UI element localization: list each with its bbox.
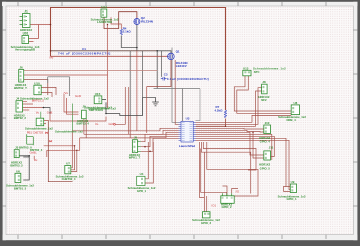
wire: GPIO2 to right loop xyxy=(232,189,238,194)
wire xyxy=(120,98,143,116)
svg-text:/Vo: /Vo xyxy=(49,56,54,60)
svg-text:U10: U10 xyxy=(34,81,40,85)
wire: J9 left pins xyxy=(64,94,79,112)
connector U15 xyxy=(84,92,112,112)
svg-text:BMT02_2: BMT02_2 xyxy=(14,116,27,120)
ruler band bottom xyxy=(3,235,358,241)
wire xyxy=(223,186,228,193)
connector J6 xyxy=(14,66,27,90)
wire: C1 top line xyxy=(51,50,158,52)
wire xyxy=(84,130,179,134)
svg-text:GnB: GnB xyxy=(47,110,53,114)
connector U14 LADESTDB xyxy=(91,5,119,24)
svg-text:Q1: Q1 xyxy=(176,50,180,54)
wire xyxy=(201,142,250,194)
svg-text:GnD: GnD xyxy=(75,94,82,98)
wire: J6 right wires xyxy=(22,70,157,72)
wire xyxy=(196,130,264,132)
svg-text:Schraubklemme_1x2: Schraubklemme_1x2 xyxy=(55,130,83,134)
wire xyxy=(141,136,179,146)
unconnected pin circle xyxy=(114,123,116,125)
svg-text:Schraubklemme_1x3: Schraubklemme_1x3 xyxy=(88,107,116,111)
svg-text:PB1 ChET03: PB1 ChET03 xyxy=(27,131,44,135)
wire: IC bottom down xyxy=(200,142,205,198)
svg-text:J8: J8 xyxy=(262,80,266,84)
wire xyxy=(47,138,80,157)
wire xyxy=(237,76,291,114)
wire: J4 net right xyxy=(23,107,43,109)
svg-text:BMT03_5: BMT03_5 xyxy=(32,98,45,102)
wire xyxy=(71,150,77,171)
svg-text:LADESTDB: LADESTDB xyxy=(97,20,112,24)
svg-text:U7: U7 xyxy=(66,161,70,165)
wire xyxy=(207,142,258,196)
svg-text:J9: J9 xyxy=(82,104,86,108)
wire: U10 stubs xyxy=(41,87,56,97)
wire: left rail /Vo down then to Q1 gate xyxy=(51,55,168,57)
svg-text:J10: J10 xyxy=(265,121,270,125)
wire: to U4 xyxy=(145,142,148,179)
wire: bus into IC left xyxy=(72,128,178,131)
svg-text:U3: U3 xyxy=(186,116,190,120)
svg-text:C3: C3 xyxy=(164,72,168,76)
wire xyxy=(196,136,275,156)
svg-text:J6: J6 xyxy=(19,66,23,70)
capacitor C1 xyxy=(58,47,111,56)
connector U8 xyxy=(278,101,306,122)
wire xyxy=(196,115,292,122)
wire xyxy=(128,87,130,134)
connector J9 xyxy=(77,104,117,125)
connector U9 xyxy=(278,180,306,201)
wire: Q2 source down to C1 line xyxy=(121,24,137,47)
svg-text:WPK1_T: WPK1_T xyxy=(129,156,141,160)
wire xyxy=(142,51,144,98)
svg-text:NTC: NTC xyxy=(254,70,260,74)
wire: U01 stubs to vertical xyxy=(29,25,39,42)
connector J5 xyxy=(129,135,141,159)
wire xyxy=(145,142,153,183)
svg-text:GPD_1: GPD_1 xyxy=(137,189,147,193)
connector U6 xyxy=(6,170,34,191)
wire xyxy=(102,99,106,101)
wire: gray net below C3 xyxy=(143,98,156,100)
wire: J9 bottom down xyxy=(84,119,86,138)
wire xyxy=(175,60,178,124)
wire xyxy=(203,142,256,170)
ruler band top xyxy=(2,2,358,6)
svg-text:2.1kΩ: 2.1kΩ xyxy=(123,30,132,34)
wire: long red verticals center xyxy=(107,25,109,109)
wire xyxy=(196,138,291,186)
svg-text:GPIO_3: GPIO_3 xyxy=(201,221,212,225)
wire: J1 to rail xyxy=(30,24,51,26)
wire: gray horiz y88.5 xyxy=(154,89,201,122)
wire: green net stub x72.3 xyxy=(71,104,73,131)
resistor R7 xyxy=(215,105,227,118)
wire: black gnd from U15 xyxy=(106,102,120,113)
connector J10 xyxy=(259,121,270,143)
svg-text:LaunchPad: LaunchPad xyxy=(179,144,195,148)
svg-text:0.1 uF [C0000C220#RACTU]: 0.1 uF [C0000C220#RACTU] xyxy=(167,77,209,81)
wire: R4 top xyxy=(111,17,121,29)
svg-text:LE34CV: LE34CV xyxy=(176,64,187,68)
connector J3 xyxy=(14,145,43,157)
connector U5 GPIO_3 xyxy=(192,212,220,225)
wire: J4 right wires xyxy=(23,102,34,104)
wire: red stub under U15 xyxy=(93,117,106,122)
wire: J4 stub xyxy=(23,109,30,111)
svg-text:IO1: IO1 xyxy=(212,204,217,208)
wire xyxy=(206,196,208,212)
resistor R4 xyxy=(120,26,131,35)
transistor Q2 xyxy=(134,16,153,25)
wire: C1 line to Q1 top xyxy=(157,51,171,53)
IC U3 LaunchPad xyxy=(179,116,196,148)
svg-text:J11: J11 xyxy=(269,145,274,149)
svg-text:U13: U13 xyxy=(243,66,249,70)
wire xyxy=(71,146,75,170)
svg-text:GnD: GnD xyxy=(109,122,115,126)
connector pin marks xyxy=(15,11,294,215)
wire xyxy=(284,187,291,192)
svg-text:740 uF [D300C2200MPAC7U]: 740 uF [D300C2200MPAC7U] xyxy=(58,51,111,55)
wire xyxy=(129,116,131,138)
wire: J6 pin3 down xyxy=(22,79,48,95)
connector J1 xyxy=(20,9,33,32)
wire: main +V rail top xyxy=(51,8,226,111)
connector U01 xyxy=(11,32,40,52)
svg-text:/Vs: /Vs xyxy=(64,91,69,95)
svg-text:BMT03_4: BMT03_4 xyxy=(77,122,90,126)
wire xyxy=(146,87,148,134)
connector J8 xyxy=(258,80,269,102)
wire: LADEST bottom loop xyxy=(104,12,137,29)
wire: C3 branch down xyxy=(156,51,158,89)
wire: dark verticals from C1 line down xyxy=(129,51,131,116)
wire xyxy=(141,138,179,151)
wire: J5 pins staircase to IC xyxy=(141,134,179,141)
svg-text:BMT03_2: BMT03_2 xyxy=(10,163,23,167)
wire: green stub x40.8 xyxy=(40,112,42,119)
wire: U2 box wires xyxy=(44,121,49,124)
connector U7 xyxy=(56,161,84,181)
capacitor C3 xyxy=(161,72,209,81)
svg-text:VersorgungBB: VersorgungBB xyxy=(15,48,35,52)
wire: U7 feeds xyxy=(71,131,73,168)
svg-text:GPIO_4: GPIO_4 xyxy=(260,139,271,143)
wire: IC right fan xyxy=(234,76,291,111)
wire xyxy=(196,140,291,189)
svg-text:GPIO_2: GPIO_2 xyxy=(221,205,232,209)
svg-text:ORB_4: ORB_4 xyxy=(286,118,296,122)
connector J7 GPIO_2 xyxy=(221,193,234,209)
wire xyxy=(23,156,29,158)
svg-text:C1: C1 xyxy=(82,47,86,51)
svg-text:GPIO_5: GPIO_5 xyxy=(260,166,271,170)
ground xyxy=(152,100,159,106)
svg-text:GPIO_1: GPIO_1 xyxy=(286,197,297,201)
svg-text:BMT02_T: BMT02_T xyxy=(14,86,27,90)
connector J11 xyxy=(259,145,274,170)
svg-text:GnBL: GnBL xyxy=(30,151,38,155)
wire xyxy=(196,91,262,126)
connector U13 xyxy=(243,66,286,76)
svg-text:4.2kΩ: 4.2kΩ xyxy=(215,108,224,112)
wire xyxy=(253,132,264,158)
connector J4 xyxy=(14,96,49,120)
wire: 50 down to U15 row xyxy=(50,114,93,121)
svg-text:U01: U01 xyxy=(23,32,29,36)
svg-text:J5: J5 xyxy=(134,135,138,139)
svg-text:IRLZ34N: IRLZ34N xyxy=(141,20,153,24)
svg-text:CHET02_4: CHET02_4 xyxy=(62,177,76,181)
wire: gray bracket xyxy=(48,77,70,96)
connector U2 xyxy=(36,118,44,126)
svg-text:Vo: Vo xyxy=(36,110,40,114)
switch S1 xyxy=(27,132,52,145)
svg-text:U8: U8 xyxy=(294,101,298,105)
wire xyxy=(196,88,262,125)
wire: black small bmt area xyxy=(19,156,29,180)
wire xyxy=(196,127,264,130)
svg-text:J1: J1 xyxy=(24,9,28,13)
wire: black jog to 50 xyxy=(43,108,51,115)
connector U10 xyxy=(34,81,41,94)
wire: J6 pin2 xyxy=(22,74,107,76)
wire xyxy=(161,51,163,77)
wire: bottom-mid U5 feeds xyxy=(201,149,227,212)
wire: rail below R7 xyxy=(196,119,226,127)
wire: S1/J3 routes right xyxy=(44,145,75,147)
wire xyxy=(196,134,272,160)
svg-text:U6: U6 xyxy=(16,170,20,174)
svg-text:BMT01_5: BMT01_5 xyxy=(14,186,27,190)
wire: Q1 bottom down xyxy=(147,60,171,87)
svg-text:U15: U15 xyxy=(95,92,101,96)
svg-text:U4: U4 xyxy=(140,172,144,176)
transistor Q1 xyxy=(168,50,188,68)
wire xyxy=(136,51,138,131)
connector U4 xyxy=(128,172,156,193)
wire: gray vertical x200 xyxy=(196,89,201,121)
svg-text:U14: U14 xyxy=(101,5,107,9)
svg-text:U9: U9 xyxy=(291,180,295,184)
ruler band left xyxy=(3,2,6,240)
ruler band right xyxy=(353,2,357,240)
wire: IC left upper pins up xyxy=(172,48,179,123)
wire xyxy=(196,132,264,155)
wire: Q2 junction down xyxy=(136,48,138,51)
svg-text:Rx: Rx xyxy=(34,158,38,162)
wire xyxy=(67,98,79,114)
wire: long dark vertical x48.3 xyxy=(48,120,72,182)
wire xyxy=(80,132,179,138)
svg-text:NF2: NF2 xyxy=(261,98,267,102)
wire xyxy=(116,87,126,124)
svg-text:Vo: Vo xyxy=(95,122,99,126)
